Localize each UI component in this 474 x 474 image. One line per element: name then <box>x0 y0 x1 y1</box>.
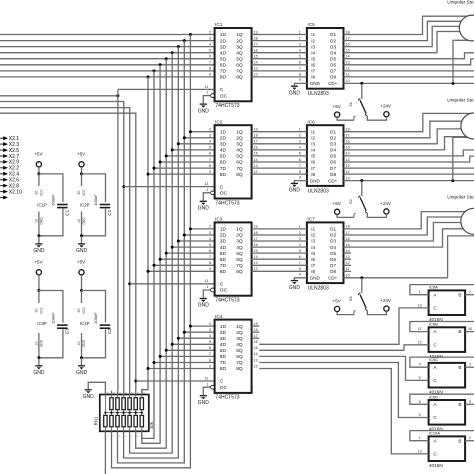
svg-text:2Q: 2Q <box>236 136 243 142</box>
svg-text:9: 9 <box>299 273 301 277</box>
svg-text:IC6: IC6 <box>307 119 315 124</box>
svg-text:6: 6 <box>299 255 301 259</box>
svg-text:12: 12 <box>254 267 258 271</box>
svg-text:1: 1 <box>206 91 208 95</box>
svg-text:O6: O6 <box>330 257 337 262</box>
wire tap from data vertical D4 to IC4 pin 6 <box>166 349 214 351</box>
wire tap from data vertical D6 to IC4 pin 8 <box>154 362 215 364</box>
svg-text:12: 12 <box>346 261 350 265</box>
svg-text:8D: 8D <box>220 269 227 275</box>
svg-text:10: 10 <box>346 79 350 83</box>
svg-text:4Q: 4Q <box>236 50 243 56</box>
node junction on D0 bus at branch vertical <box>189 33 192 36</box>
svg-text:4016N: 4016N <box>429 463 443 468</box>
svg-text:5: 5 <box>419 376 421 380</box>
node RN1 common junction col 6 <box>135 412 137 414</box>
svg-text:IC3P: IC3P <box>37 321 47 326</box>
wire data bus line D4 from left edge to IC1 pin 6 <box>0 58 215 60</box>
node junction D6 tap for IC3 <box>153 264 156 267</box>
svg-text:O1: O1 <box>330 32 337 37</box>
wire data D1 vertical drop and U-loop to RN1 bottom pin 3 <box>118 41 185 463</box>
label IC9C pin 5 <box>419 376 421 380</box>
svg-text:4: 4 <box>209 140 211 144</box>
svg-text:I8: I8 <box>311 172 315 177</box>
wire LE3 branch to IC3 pin C <box>130 283 215 285</box>
svg-text:I4: I4 <box>311 50 315 55</box>
svg-text:10: 10 <box>34 219 38 223</box>
svg-text:CD+: CD+ <box>328 276 337 281</box>
svg-text:GND: GND <box>83 394 95 400</box>
svg-text:I5: I5 <box>311 56 315 61</box>
svg-text:O2: O2 <box>330 233 337 238</box>
svg-text:13: 13 <box>346 158 350 162</box>
RN1 bottom pin 4 <box>124 431 128 438</box>
svg-text:1: 1 <box>206 382 208 386</box>
svg-text:+24V: +24V <box>380 201 392 206</box>
wire RN1 top pin 14 to ground <box>88 382 105 390</box>
svg-text:13: 13 <box>346 255 350 259</box>
svg-text:13: 13 <box>254 261 258 265</box>
node junction on D1 bus at branch vertical <box>183 39 186 42</box>
svg-text:10k: 10k <box>149 421 154 429</box>
svg-text:I8: I8 <box>311 75 315 80</box>
wire IC9B A input loop from right edge <box>410 322 474 332</box>
svg-text:IC1P: IC1P <box>37 202 47 207</box>
wire IC2 8Q to IC6 I8 <box>252 173 307 175</box>
svg-text:I2: I2 <box>311 233 315 238</box>
wire IC3 6Q to IC7 I6 <box>252 258 307 260</box>
svg-text:C: C <box>220 282 224 288</box>
svg-text:8: 8 <box>419 400 421 404</box>
RN1 bottom pin 2 <box>112 431 116 438</box>
svg-text:7Q: 7Q <box>236 263 243 269</box>
wire IC5 O1 stair to motor 1 <box>344 16 474 34</box>
wire IC5 O3 stair to motor 1 <box>344 26 474 46</box>
power +5V at switch S1 <box>333 104 356 120</box>
svg-text:4: 4 <box>209 237 211 241</box>
RN1 top pin 13 <box>112 391 116 395</box>
svg-text:18: 18 <box>346 225 350 229</box>
svg-text:+5V: +5V <box>333 298 342 303</box>
svg-text:10: 10 <box>346 274 350 278</box>
node junction D5 tap for IC4 <box>159 355 162 358</box>
wire IC9C B output stub <box>465 366 474 368</box>
label IC10A pin 1 <box>419 436 421 440</box>
RN1 resistor element bottom column 3 <box>116 413 119 432</box>
wire IC1 8Q to IC5 I8 <box>252 76 307 78</box>
svg-text:12: 12 <box>346 67 350 71</box>
latch IC4 74HCT573 <box>205 314 258 401</box>
node junction CD+ rail to switch S3 <box>360 276 363 279</box>
svg-text:2Q: 2Q <box>236 233 243 239</box>
wire tap from data vertical D4 to IC2 pin 6 <box>166 155 214 157</box>
wire IC7 O5 stub <box>344 252 352 254</box>
svg-text:15: 15 <box>254 152 258 156</box>
RN1 top pin 14 <box>105 391 109 395</box>
svg-text:4: 4 <box>209 42 211 46</box>
svg-text:2D: 2D <box>220 38 227 44</box>
svg-text:19: 19 <box>254 322 258 326</box>
svg-text:5Q: 5Q <box>236 56 243 62</box>
RN1 top pin 12 <box>118 391 122 395</box>
svg-text:O5: O5 <box>330 251 337 256</box>
svg-text:4: 4 <box>299 146 301 150</box>
svg-text:2: 2 <box>469 436 471 440</box>
power +24V at switch S3 <box>367 298 392 315</box>
label IC9D pin 8 <box>419 400 421 404</box>
svg-text:GND: GND <box>310 81 321 86</box>
svg-text:20: 20 <box>34 191 38 195</box>
svg-text:GND: GND <box>39 339 43 347</box>
wire IC2 3Q to IC6 I3 <box>252 143 307 145</box>
node junction D7 tap for IC4 <box>147 367 150 370</box>
svg-text:8: 8 <box>209 164 211 168</box>
svg-text:2: 2 <box>209 225 211 229</box>
svg-text:I1: I1 <box>311 129 315 134</box>
analog switch IC9D 4016N <box>429 394 466 431</box>
wire IC4 3Q stub <box>252 337 260 339</box>
RN1 resistor element bottom column 2 <box>110 413 113 432</box>
capacitor C2 100nF <box>82 174 113 236</box>
wire data D5 vertical drop and U-loop to RN1 bottom pin 7 <box>142 65 160 444</box>
svg-text:O7: O7 <box>330 69 337 74</box>
wire IC2 5Q to IC6 I5 <box>252 155 307 157</box>
svg-text:IC4: IC4 <box>215 314 223 319</box>
power pins IC3P VCC/GND <box>34 291 47 360</box>
wire IC2 6Q to IC6 I6 <box>252 161 307 163</box>
node junction D4 tap for IC3 <box>165 252 168 255</box>
label motor 1 <box>447 0 474 6</box>
power +5V for IC4P <box>77 260 86 292</box>
wire IC10A A input loop from right edge <box>410 431 474 441</box>
svg-text:3: 3 <box>209 36 211 40</box>
svg-text:13: 13 <box>254 358 258 362</box>
svg-text:7D: 7D <box>220 263 227 269</box>
svg-text:+24V: +24V <box>380 104 392 109</box>
svg-text:10: 10 <box>346 176 350 180</box>
wire CD+ branch up to motor 3 common <box>448 236 474 278</box>
svg-text:8D: 8D <box>220 366 227 372</box>
wire data D2 vertical drop and U-loop to RN1 bottom pin 4 <box>124 47 179 458</box>
svg-text:13: 13 <box>418 303 422 307</box>
svg-text:5: 5 <box>209 243 211 247</box>
svg-text:7: 7 <box>209 158 211 162</box>
svg-text:12: 12 <box>254 364 258 368</box>
svg-text:B: B <box>458 402 461 407</box>
wire IC5 O5 with jog to right edge <box>344 53 474 59</box>
svg-text:O2: O2 <box>330 38 337 43</box>
svg-text:C3: C3 <box>65 328 70 334</box>
svg-text:I5: I5 <box>311 251 315 256</box>
svg-text:C: C <box>220 184 224 190</box>
svg-text:5Q: 5Q <box>236 251 243 257</box>
node junction LE1 at vertical <box>116 94 119 97</box>
svg-text:S3: S3 <box>348 296 353 302</box>
svg-text:+5V: +5V <box>333 104 342 109</box>
svg-text:B: B <box>458 365 461 370</box>
svg-text:I3: I3 <box>311 44 315 49</box>
svg-text:C4: C4 <box>107 328 112 334</box>
ground GND at IC1 OC <box>198 104 210 114</box>
svg-text:4D: 4D <box>220 342 227 348</box>
svg-text:9: 9 <box>469 400 471 404</box>
svg-text:14: 14 <box>346 55 350 59</box>
svg-text:17: 17 <box>254 334 258 338</box>
svg-text:7Q: 7Q <box>236 69 243 75</box>
wire RN1 pin1 column top link <box>104 395 106 413</box>
wire IC1 5Q to IC5 I5 <box>252 58 307 60</box>
wire data bus line D2 from left edge to IC1 pin 4 <box>0 46 215 48</box>
svg-text:11: 11 <box>205 376 209 380</box>
svg-text:5: 5 <box>209 146 211 150</box>
wire IC7 O4 stair to motor 3 <box>344 229 474 247</box>
ground GND at IC6 <box>289 183 301 193</box>
svg-text:3: 3 <box>209 231 211 235</box>
wire IC3 5Q to IC7 I5 <box>252 252 307 254</box>
svg-text:100nF: 100nF <box>51 312 56 324</box>
svg-text:16: 16 <box>254 340 258 344</box>
node junction LE4 branch to IC4 pin C <box>134 380 137 383</box>
power pins IC2P VCC/GND <box>77 174 90 237</box>
wire tap from data vertical D4 to IC3 pin 6 <box>166 252 214 254</box>
node junction D0 tap for IC3 <box>189 227 192 230</box>
svg-text:2Q: 2Q <box>236 330 243 336</box>
svg-text:2D: 2D <box>220 233 227 239</box>
wire IC5 O7 to right edge <box>344 70 474 72</box>
svg-text:9: 9 <box>209 364 211 368</box>
wire IC2 4Q to IC6 I4 <box>252 149 307 151</box>
svg-text:14: 14 <box>254 158 258 162</box>
node junction D6 tap for IC2 <box>153 167 156 170</box>
wire IC9A C control from IC4 output <box>259 308 428 344</box>
wire IC4 1Q stub <box>252 325 260 327</box>
svg-text:4: 4 <box>209 334 211 338</box>
svg-text:12: 12 <box>418 340 422 344</box>
svg-text:O8: O8 <box>330 269 337 274</box>
power +24V at switch S1 <box>367 104 392 121</box>
svg-text:20: 20 <box>77 309 81 313</box>
wire IC5 GND pin 9 <box>294 83 307 85</box>
svg-text:I6: I6 <box>311 160 315 165</box>
label IC9C pin 3 <box>469 363 471 367</box>
svg-text:1: 1 <box>419 436 421 440</box>
svg-text:O7: O7 <box>330 166 337 171</box>
svg-text:GND: GND <box>39 217 43 225</box>
svg-text:ULN2803: ULN2803 <box>308 286 329 292</box>
svg-text:13: 13 <box>346 61 350 65</box>
wire IC4 OC pin to ground <box>203 385 214 395</box>
node junction D1 tap for IC2 <box>183 136 186 139</box>
svg-text:IC3: IC3 <box>215 217 223 222</box>
svg-text:19: 19 <box>254 225 258 229</box>
wire IC6 O3 stair to motor 2 <box>344 129 474 144</box>
wire IC5 O2 stair to motor 1 <box>344 21 474 40</box>
label IC9A pin 13 <box>418 303 422 307</box>
node junction CD+ rail motor branch <box>451 179 454 182</box>
ground GND at RN1 <box>83 390 95 400</box>
svg-text:5: 5 <box>299 55 301 59</box>
svg-text:1D: 1D <box>220 129 227 135</box>
wire IC1 7Q to IC5 I7 <box>252 70 307 72</box>
switch S1 <box>348 83 367 115</box>
svg-text:13: 13 <box>254 164 258 168</box>
svg-text:20: 20 <box>77 191 81 195</box>
svg-text:2: 2 <box>299 36 301 40</box>
node junction D2 tap for IC4 <box>177 337 180 340</box>
RN1 resistor element top column 3 <box>116 395 119 413</box>
node junction D3 tap for IC4 <box>171 343 174 346</box>
capacitor C4 100nF <box>82 291 113 358</box>
svg-text:15: 15 <box>346 49 350 53</box>
wire IC9C A input loop from right edge <box>410 357 474 367</box>
svg-text:I7: I7 <box>311 166 315 171</box>
analog switch IC9C 4016N <box>429 357 466 394</box>
svg-text:2Q: 2Q <box>236 38 243 44</box>
svg-text:15: 15 <box>346 146 350 150</box>
latch IC1 74HCT573 <box>205 22 258 109</box>
svg-text:7: 7 <box>209 61 211 65</box>
wire IC1 6Q to IC5 I6 <box>252 64 307 66</box>
svg-text:11: 11 <box>346 267 350 271</box>
ground GND at IC2P <box>76 236 88 254</box>
motor M3 unipolar stepper <box>461 208 474 234</box>
svg-text:OC: OC <box>220 191 228 197</box>
wire IC5 O8 to right edge <box>344 76 474 78</box>
svg-text:8Q: 8Q <box>236 366 243 372</box>
svg-text:O6: O6 <box>330 63 337 68</box>
motor M2 unipolar stepper <box>461 113 474 139</box>
RN1 resistor element top column 5 <box>128 395 131 413</box>
svg-text:1D: 1D <box>220 32 227 38</box>
svg-text:6: 6 <box>299 61 301 65</box>
svg-text:1: 1 <box>299 128 301 132</box>
node RN1 common junction col 4 <box>123 412 125 414</box>
label IC9D pin 9 <box>469 400 471 404</box>
svg-text:B: B <box>458 292 461 297</box>
svg-text:7: 7 <box>299 261 301 265</box>
svg-text:7: 7 <box>209 255 211 259</box>
svg-text:I6: I6 <box>311 63 315 68</box>
wire IC3 3Q to IC7 I3 <box>252 240 307 242</box>
svg-text:C: C <box>220 379 224 385</box>
analog switch IC9B 4016N <box>429 322 466 359</box>
node junction D4 tap for IC2 <box>165 154 168 157</box>
svg-text:3Q: 3Q <box>236 44 243 50</box>
svg-text:100nF: 100nF <box>93 312 98 324</box>
wire CD+ branch up to motor 1 common <box>453 40 474 83</box>
svg-text:RN1: RN1 <box>93 416 98 425</box>
wire data bus line D5 from left edge to IC1 pin 7 <box>0 64 215 66</box>
svg-text:7Q: 7Q <box>236 360 243 366</box>
svg-text:VCC: VCC <box>82 188 86 195</box>
svg-text:16: 16 <box>254 49 258 53</box>
svg-text:16: 16 <box>346 140 350 144</box>
svg-text:3: 3 <box>209 328 211 332</box>
svg-text:8Q: 8Q <box>236 269 243 275</box>
svg-text:O7: O7 <box>330 263 337 268</box>
svg-text:GND: GND <box>289 90 301 96</box>
svg-text:6: 6 <box>209 346 211 350</box>
svg-text:3D: 3D <box>220 44 227 50</box>
node junction CD+ rail motor branch <box>452 82 455 85</box>
svg-text:8: 8 <box>209 261 211 265</box>
node junction CD+ rail to switch S1 <box>360 82 363 85</box>
node junction D0 tap for IC2 <box>189 130 192 133</box>
wire data bus line D7 from left edge to IC1 pin 9 <box>0 76 215 78</box>
svg-text:5: 5 <box>299 152 301 156</box>
svg-text:9: 9 <box>209 267 211 271</box>
svg-text:3: 3 <box>209 134 211 138</box>
wire IC5 O4 stair to motor 1 <box>344 32 474 53</box>
svg-text:ULN2803: ULN2803 <box>308 91 329 97</box>
svg-text:I3: I3 <box>311 239 315 244</box>
RN1 bottom pin 3 <box>118 431 122 438</box>
svg-text:GND: GND <box>33 370 45 376</box>
svg-text:I2: I2 <box>311 38 315 43</box>
wire LE2 branch to IC2 pin C <box>124 186 215 188</box>
wire IC2 1Q to IC6 I1 <box>252 131 307 133</box>
svg-text:16: 16 <box>346 42 350 46</box>
svg-text:6D: 6D <box>220 354 227 360</box>
wire IC7 CD+ rail <box>344 277 448 279</box>
node junction CD+ rail to switch S2 <box>360 179 363 182</box>
connector pin X2.11 (clipped) <box>0 196 8 200</box>
svg-text:18: 18 <box>254 36 258 40</box>
svg-text:I6: I6 <box>311 257 315 262</box>
svg-text:15: 15 <box>254 249 258 253</box>
svg-text:3: 3 <box>299 42 301 46</box>
svg-text:16: 16 <box>346 237 350 241</box>
latch IC3 74HCT573 <box>205 217 258 304</box>
svg-text:3: 3 <box>299 140 301 144</box>
latch IC2 74HCT573 <box>205 119 258 206</box>
svg-text:2: 2 <box>299 231 301 235</box>
svg-text:I2: I2 <box>311 136 315 141</box>
wire tap from data vertical D0 to IC4 pin 2 <box>190 325 214 327</box>
svg-text:+5V: +5V <box>77 152 86 157</box>
svg-text:IC7: IC7 <box>307 217 315 222</box>
svg-text:GND: GND <box>82 339 86 347</box>
svg-text:O8: O8 <box>330 75 337 80</box>
power +5V for IC1P <box>34 152 43 176</box>
svg-text:10: 10 <box>34 342 38 346</box>
connector pin X2.9 <box>0 160 19 166</box>
label IC10A pin 13 <box>418 449 422 453</box>
svg-text:+24V: +24V <box>380 298 392 303</box>
svg-text:GND: GND <box>82 217 86 225</box>
svg-text:+5V: +5V <box>34 152 43 157</box>
wire IC3 OC pin to ground <box>203 288 214 298</box>
wire IC10A C control from IC4 output <box>259 369 428 454</box>
svg-text:IC1: IC1 <box>215 22 223 27</box>
svg-text:18: 18 <box>346 128 350 132</box>
label motor 2 <box>447 98 474 104</box>
svg-text:O2: O2 <box>330 136 337 141</box>
wire tap from data vertical D3 to IC4 pin 5 <box>172 343 214 345</box>
node junction D1 tap for IC3 <box>183 234 186 237</box>
svg-text:5: 5 <box>299 249 301 253</box>
svg-text:6: 6 <box>209 55 211 59</box>
wire IC1 OC pin to ground <box>203 94 214 104</box>
node RN1 common junction col 7 <box>141 412 143 414</box>
RN1 resistor element top column 2 <box>110 395 113 413</box>
power +5V at switch S2 <box>333 201 356 217</box>
wire IC6 O7 to right edge <box>344 167 474 169</box>
svg-text:11: 11 <box>346 170 350 174</box>
svg-text:5D: 5D <box>220 56 227 62</box>
svg-text:8: 8 <box>209 67 211 71</box>
svg-text:14: 14 <box>346 152 350 156</box>
